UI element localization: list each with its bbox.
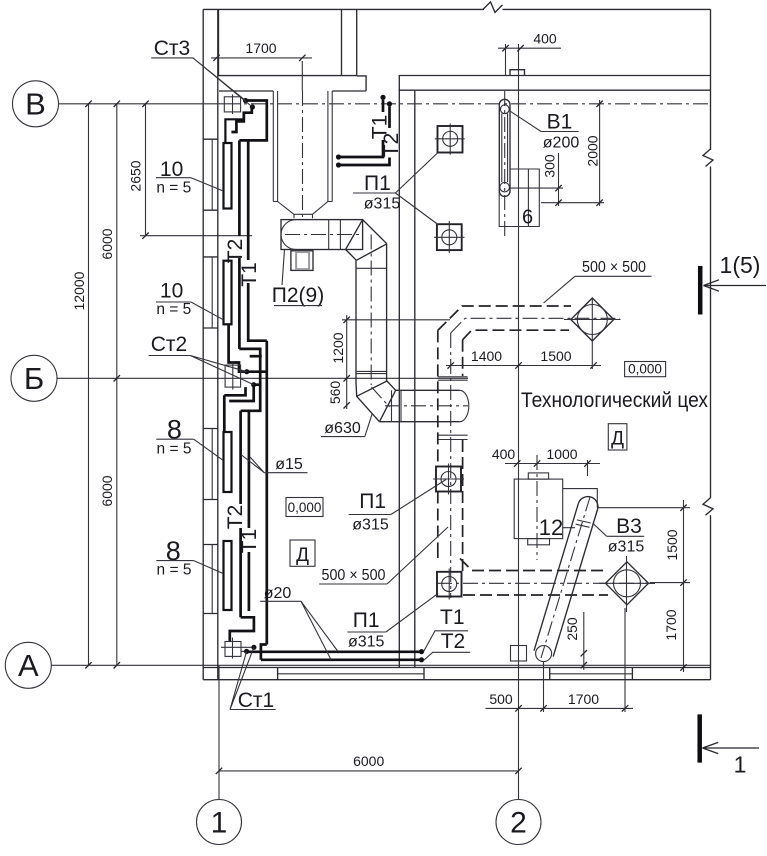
grid 1 line: [218, 666, 220, 800]
section mark 1(5) right: [700, 252, 766, 315]
45-degree elbow corner: [346, 220, 387, 261]
bottom pipe T1 horizontal: [247, 650, 422, 653]
svg-text:500 × 500: 500 × 500: [582, 259, 646, 276]
label B1 ф200: [509, 111, 579, 152]
svg-text:Ст1: Ст1: [238, 689, 274, 712]
label Д box right: [608, 424, 627, 450]
svg-text:560: 560: [327, 381, 343, 405]
label 500x500 (top): [544, 259, 652, 303]
node dots Ст1: [244, 649, 249, 654]
dim 2000 right of B1: [541, 100, 604, 206]
axis B circle: [13, 81, 59, 127]
right boundary line with breaks: [703, 9, 713, 679]
riser pipe C main (x=266.8 lower half): [265, 341, 268, 645]
svg-text:В: В: [25, 87, 46, 122]
svg-text:Т2: Т2: [224, 505, 247, 530]
svg-text:ø20: ø20: [264, 585, 292, 602]
П1 square flange 2: [434, 221, 465, 253]
svg-text:1200: 1200: [330, 332, 346, 363]
svg-text:1500: 1500: [664, 529, 680, 560]
svg-text:400: 400: [533, 31, 557, 47]
svg-text:ø630: ø630: [324, 420, 361, 437]
labels T2/T1 vertical lower-left: [224, 505, 261, 554]
label П1 ф315 (middle): [349, 480, 446, 534]
riser pipe B lower (x=248.9): [248, 412, 251, 611]
label 10 n=5 (1): [156, 158, 223, 197]
label Ст3: [151, 37, 252, 107]
svg-text:ø315: ø315: [352, 517, 389, 534]
svg-text:0,000: 0,000: [288, 500, 322, 515]
left wall window middle lines: [211, 139, 213, 613]
radiator R2: [224, 261, 232, 325]
svg-text:6000: 6000: [99, 228, 115, 259]
dim line 6000+6000 vertical: [99, 101, 120, 669]
axis A line: [51, 664, 710, 666]
Ст1 staircase into riser square: [230, 617, 254, 641]
svg-text:300: 300: [542, 154, 558, 178]
svg-text:1: 1: [734, 752, 747, 778]
svg-text:n = 5: n = 5: [156, 301, 191, 318]
grid 2 circle: [496, 800, 541, 845]
radiator R3: [224, 432, 232, 492]
label ф20: [260, 585, 338, 660]
dim 6000 between grids 1-2: [216, 753, 522, 774]
svg-text:Т2: Т2: [224, 239, 247, 264]
elbow ф630: [356, 381, 396, 422]
dim 2650 vertical: [128, 101, 253, 239]
label П2(9): [272, 250, 324, 308]
svg-text:Ст2: Ст2: [151, 333, 187, 356]
dim 400/1000 at item 12: [492, 446, 600, 476]
label Д box left: [290, 540, 315, 566]
svg-text:ø315: ø315: [608, 539, 645, 556]
label 8 n=5 (4): [156, 536, 223, 579]
vessel neck: [294, 214, 313, 218]
wall notch above grid 2: [510, 70, 525, 76]
upper room left inner line: [218, 9, 220, 75]
svg-text:Ст3: Ст3: [154, 37, 190, 60]
svg-text:0,000: 0,000: [628, 362, 662, 377]
svg-text:1700: 1700: [245, 40, 276, 56]
dim 1500/1700 right side: [597, 500, 690, 672]
svg-text:1500: 1500: [540, 348, 571, 364]
label 10 n=5 (2): [156, 280, 223, 320]
bottom wall bottom edge: [203, 679, 710, 681]
svg-text:1: 1: [211, 807, 228, 840]
svg-text:2: 2: [510, 807, 527, 840]
bottom bend outer chamfer (flange4 covers corner): [438, 553, 607, 571]
axis Б circle: [11, 355, 57, 401]
svg-text:10: 10: [160, 280, 183, 303]
riser square Ст3: [224, 95, 240, 115]
vessel outer walls: [273, 91, 332, 202]
left wall window caps: [203, 139, 218, 613]
vertical dashed run outer: [437, 330, 439, 552]
Ст3 hook pipe (dot1 right, down, back left): [239, 101, 266, 141]
upper room bottom edge: [218, 75, 357, 77]
dim 560: [327, 381, 350, 409]
label B3 ф315: [593, 515, 645, 556]
label 0,000 box 2: [286, 498, 323, 517]
label 500x500 (bottom): [319, 527, 448, 584]
left exterior wall outer face: [202, 9, 204, 679]
svg-text:12: 12: [539, 515, 563, 540]
Ст3 thin feed to radiator R1: [225, 112, 244, 143]
svg-text:ø315: ø315: [364, 196, 401, 213]
vessel cone bottom: [278, 202, 328, 215]
bottom pipe T2 horizontal: [261, 658, 422, 661]
B3 fan housing box: [563, 489, 597, 528]
duct centerline bottom run: [437, 582, 655, 584]
riser pipe A bypass right of Ст2: [239, 349, 260, 411]
section mark 1 bottom right: [700, 714, 759, 777]
vertical dashed run inner: [462, 340, 464, 571]
П1 square flange 4 (at bottom bend): [437, 569, 462, 600]
svg-text:1700: 1700: [663, 609, 679, 640]
axis A circle: [5, 642, 51, 688]
svg-text:ø15: ø15: [275, 456, 303, 473]
dim line 12000 vertical: [71, 101, 92, 669]
svg-text:П1: П1: [364, 172, 391, 195]
dim 300: [510, 153, 563, 206]
svg-text:1400: 1400: [471, 348, 502, 364]
dim 400 top: [498, 31, 561, 76]
svg-text:n = 5: n = 5: [157, 562, 192, 579]
labels T1/T2 at bottom pipes: [424, 606, 471, 661]
top bend outer chamfer: [438, 306, 571, 330]
upper room right wall: [342, 9, 357, 76]
left exterior wall inner face: [217, 9, 219, 679]
svg-text:Д: Д: [296, 545, 309, 566]
vertical duct down to Б: [356, 235, 387, 386]
svg-text:Б: Б: [24, 361, 44, 396]
dim 1200: [330, 315, 450, 382]
svg-text:П1: П1: [353, 609, 380, 632]
label ф630: [321, 414, 372, 437]
svg-text:250: 250: [564, 617, 580, 641]
label Ст1: [230, 647, 276, 712]
grid 2 line: [518, 44, 520, 800]
svg-text:400: 400: [492, 446, 516, 462]
svg-text:А: А: [18, 648, 39, 683]
svg-text:1700: 1700: [568, 691, 599, 707]
radiator R1: [224, 143, 232, 209]
riser square Ст2: [225, 363, 241, 390]
radiator R4: [224, 541, 232, 610]
svg-text:Т1: Т1: [238, 262, 261, 287]
svg-text:2650: 2650: [128, 160, 144, 191]
П1 square flange 3: [433, 464, 464, 495]
interior wall left face: [398, 76, 400, 668]
bottom wall window caps: [278, 668, 633, 680]
round elbow duct body: [281, 220, 363, 250]
svg-text:В3: В3: [616, 515, 642, 538]
top-right wall inner face: [399, 89, 711, 91]
svg-text:2000: 2000: [585, 135, 601, 166]
svg-text:ø315: ø315: [348, 634, 385, 651]
axis B line: [59, 103, 711, 105]
svg-text:Т1: Т1: [238, 529, 261, 554]
labels T2/T1 vertical upper-left: [224, 239, 261, 287]
Ст3 zigzag pipe 2 to radiator R1: [231, 107, 251, 132]
svg-text:500: 500: [489, 691, 513, 707]
duct centerline top bend: [451, 318, 620, 333]
svg-text:В1: В1: [547, 111, 573, 134]
small square near grid2 on bottom wall: [511, 646, 527, 662]
riser pipe A lower (x=240.6): [239, 411, 242, 618]
exhaust diamond grille 2: [599, 556, 655, 612]
svg-text:Т2: Т2: [441, 630, 466, 653]
svg-text:n = 5: n = 5: [156, 180, 191, 197]
bottom horizontal inner dashed: [463, 594, 608, 596]
svg-text:n = 5: n = 5: [157, 441, 192, 458]
bottom wall top edge: [203, 667, 710, 669]
horizontal round elbow duct to dashed riser: [372, 387, 469, 422]
riser pipe A upper (x=239.4): [238, 140, 241, 349]
T2 riser at vessel: [336, 101, 392, 167]
label Ст2: [149, 333, 254, 385]
label 0,000 box 1: [625, 362, 666, 377]
axis Б line: [57, 377, 468, 379]
svg-text:П2(9): П2(9): [272, 284, 324, 307]
labels T1/T2 vertical at vessel: [369, 115, 404, 158]
svg-text:Технологический цех: Технологический цех: [521, 388, 708, 412]
Ст2 zigzag cluster: [224, 324, 266, 432]
svg-text:6000: 6000: [353, 753, 384, 769]
dim 1400/1500: [446, 348, 601, 369]
wall step right of room: [357, 76, 366, 91]
svg-text:Т2: Т2: [380, 133, 403, 158]
riser square Ст1: [221, 638, 254, 659]
dim 250 at B3: [564, 612, 587, 670]
duct centerline dash-dot vertical: [450, 333, 452, 598]
riser pipe B upper (x=248.2): [248, 140, 267, 340]
interior wall right face: [414, 90, 416, 667]
flange pairs where dashed duct crosses round elbow: [438, 377, 468, 440]
top-right wall outer face: [399, 75, 711, 77]
node dots Ст2: [244, 369, 249, 374]
Ст1 main corner: [261, 645, 267, 660]
dim 500/1700 bottom: [486, 608, 634, 712]
top boundary line with break: [203, 2, 710, 13]
dim 1700 top: [211, 40, 312, 91]
svg-text:12000: 12000: [71, 271, 87, 310]
node dots at pipe right ends: [419, 649, 424, 654]
vessel centerline: [302, 91, 304, 219]
svg-text:6: 6: [522, 207, 533, 229]
top bend inner chamfer: [463, 330, 569, 340]
label 8 n=5 (3): [156, 415, 223, 461]
grid 1 circle: [197, 800, 242, 845]
svg-text:1000: 1000: [546, 446, 577, 462]
svg-text:500 × 500: 500 × 500: [322, 567, 386, 584]
node dots Ст3: [243, 98, 248, 103]
svg-text:1(5): 1(5): [720, 252, 761, 278]
label П1 ф315 (top): [353, 153, 438, 225]
bottom wall window middle lines: [278, 673, 633, 675]
exhaust diamond grille 1: [564, 298, 621, 370]
svg-text:6000: 6000: [99, 475, 115, 506]
label П1 ф315 (bottom): [347, 593, 438, 650]
T1 riser at vessel: [336, 95, 386, 160]
svg-text:ø200: ø200: [543, 135, 580, 152]
north wall inner face line (left part, interrupted by vessel): [219, 90, 366, 92]
label ф15: [242, 455, 308, 473]
svg-text:Д: Д: [611, 429, 624, 450]
svg-text:Т1: Т1: [440, 606, 465, 629]
svg-text:П1: П1: [359, 490, 386, 513]
